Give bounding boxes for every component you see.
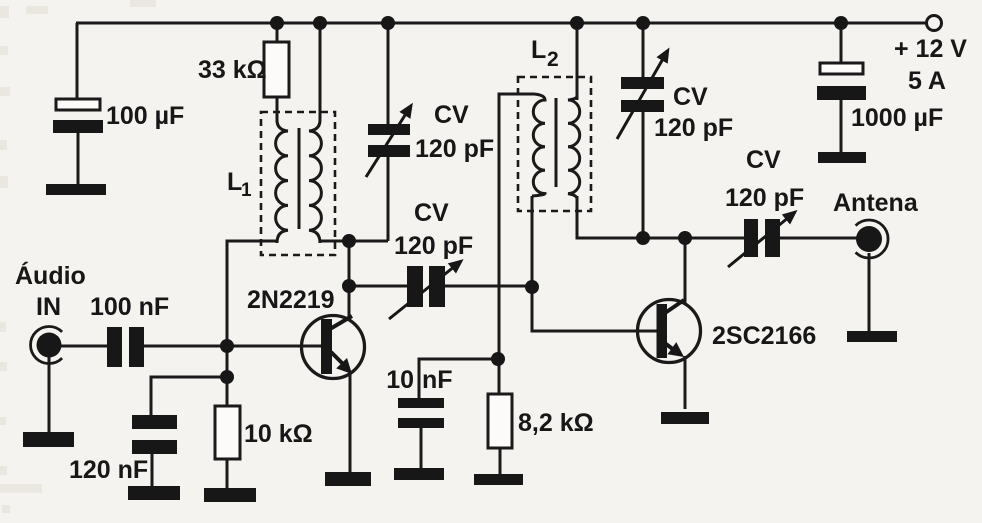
svg-text:5 A: 5 A <box>908 67 946 95</box>
svg-text:1: 1 <box>241 180 252 201</box>
svg-text:2N2219: 2N2219 <box>247 286 335 314</box>
svg-text:120 pF: 120 pF <box>654 114 733 142</box>
svg-text:120 nF: 120 nF <box>69 456 148 484</box>
svg-text:IN: IN <box>36 293 61 321</box>
svg-text:120 pF: 120 pF <box>394 232 473 260</box>
svg-text:10 kΩ: 10 kΩ <box>244 420 313 448</box>
svg-text:CV: CV <box>414 199 449 227</box>
svg-text:120 pF: 120 pF <box>725 184 804 212</box>
svg-text:33 kΩ: 33 kΩ <box>198 56 267 84</box>
svg-text:8,2 kΩ: 8,2 kΩ <box>518 409 594 437</box>
svg-text:1000 µF: 1000 µF <box>851 104 943 132</box>
svg-text:CV: CV <box>746 146 781 174</box>
svg-text:120 pF: 120 pF <box>415 135 494 163</box>
svg-text:Antena: Antena <box>833 189 919 217</box>
svg-text:10: 10 <box>386 366 414 394</box>
svg-text:2: 2 <box>547 48 559 71</box>
svg-text:2SC2166: 2SC2166 <box>712 322 816 350</box>
svg-text:L: L <box>531 36 546 64</box>
svg-text:+ 12 V: + 12 V <box>894 35 967 63</box>
svg-text:CV: CV <box>673 83 708 111</box>
svg-text:100 µF: 100 µF <box>106 102 184 130</box>
svg-text:100 nF: 100 nF <box>90 293 169 321</box>
svg-text:Áudio: Áudio <box>15 261 86 290</box>
svg-text:CV: CV <box>434 101 469 129</box>
svg-text:nF: nF <box>422 366 453 394</box>
svg-text:L: L <box>227 168 242 196</box>
